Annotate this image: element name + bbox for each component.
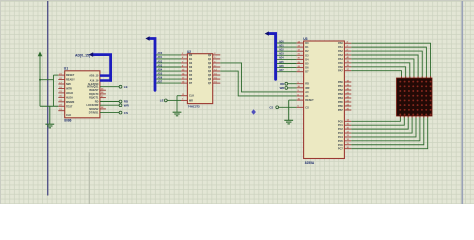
svg-text:AD2: AD2 (158, 60, 163, 63)
svg-text:AD7: AD7 (158, 80, 163, 83)
svg-text:PA1: PA1 (338, 46, 343, 49)
svg-text:PA7: PA7 (338, 70, 343, 73)
svg-text:A16..19: A16..19 (90, 80, 99, 83)
svg-text:CS: CS (124, 111, 128, 115)
svg-text:AD5: AD5 (279, 61, 284, 64)
svg-text:AD0: AD0 (158, 52, 163, 55)
svg-text:AD1: AD1 (158, 56, 163, 59)
svg-text:AD2: AD2 (279, 49, 284, 52)
svg-text:RD: RD (305, 83, 309, 86)
svg-text:LOCK/WR: LOCK/WR (86, 104, 98, 107)
svg-text:PC2: PC2 (338, 128, 343, 131)
svg-text:U1: U1 (64, 67, 68, 71)
svg-text:RQ/GT1: RQ/GT1 (89, 97, 99, 100)
svg-text:PA4: PA4 (338, 58, 343, 61)
svg-text:INTR: INTR (66, 87, 72, 90)
svg-text:WR: WR (280, 86, 285, 90)
svg-text:AD0..15: AD0..15 (89, 75, 99, 78)
svg-text:PC3: PC3 (338, 132, 343, 135)
svg-text:TEST: TEST (66, 105, 73, 108)
svg-text:AD5: AD5 (158, 72, 163, 75)
svg-text:8255A: 8255A (305, 161, 315, 165)
svg-text:DT/R/S1: DT/R/S1 (89, 112, 99, 115)
svg-text:MN/MX: MN/MX (66, 101, 75, 104)
svg-text:PA2: PA2 (338, 50, 343, 53)
svg-text:PB7: PB7 (338, 109, 343, 112)
svg-text:PA5: PA5 (338, 62, 343, 65)
svg-text:BHE/S7: BHE/S7 (89, 89, 99, 92)
svg-text:CLK: CLK (66, 114, 71, 117)
svg-text:AD3: AD3 (158, 64, 163, 67)
svg-text:AD3: AD3 (279, 53, 284, 56)
svg-text:CS: CS (269, 106, 273, 110)
svg-text:LE: LE (160, 99, 164, 103)
svg-text:HLDA: HLDA (66, 96, 73, 99)
svg-text:CLK: CLK (189, 95, 194, 98)
svg-text:PC6: PC6 (338, 144, 343, 147)
svg-text:PC7: PC7 (338, 148, 343, 151)
svg-text:NMI: NMI (66, 83, 71, 86)
svg-text:CS: CS (305, 106, 309, 109)
svg-text:WR: WR (305, 87, 309, 90)
svg-text:AD0: AD0 (279, 40, 284, 43)
svg-text:RESET: RESET (66, 74, 75, 77)
svg-text:RQ/GT0: RQ/GT0 (89, 93, 99, 96)
svg-text:PB0: PB0 (338, 81, 343, 84)
svg-text:READY: READY (66, 79, 75, 82)
svg-text:AD6: AD6 (158, 76, 163, 79)
svg-text:PB6: PB6 (338, 105, 343, 108)
svg-text:LE: LE (124, 85, 128, 89)
svg-text:74HC273: 74HC273 (188, 105, 200, 109)
svg-text:AD7: AD7 (279, 69, 284, 72)
svg-text:PB3: PB3 (338, 93, 343, 96)
svg-text:PC1: PC1 (338, 124, 343, 127)
svg-text:RD: RD (95, 101, 99, 104)
svg-text:PC0: PC0 (338, 120, 343, 123)
svg-text:PB5: PB5 (338, 101, 343, 104)
svg-text:AD4: AD4 (279, 57, 284, 60)
svg-text:WR: WR (124, 103, 130, 107)
svg-text:AD[0..15]: AD[0..15] (75, 53, 90, 57)
svg-text:AD4: AD4 (158, 68, 163, 71)
svg-text:PC5: PC5 (338, 140, 343, 143)
svg-text:U3: U3 (303, 37, 307, 41)
svg-text:PB1: PB1 (338, 85, 343, 88)
svg-text:PA6: PA6 (338, 66, 343, 69)
svg-text:RESET: RESET (305, 99, 314, 102)
svg-text:PA0: PA0 (338, 42, 343, 45)
svg-text:8086: 8086 (64, 119, 71, 123)
svg-text:PA3: PA3 (338, 54, 343, 57)
svg-text:PB2: PB2 (338, 89, 343, 92)
svg-text:AD6: AD6 (279, 65, 284, 68)
svg-text:M/IO/S2: M/IO/S2 (89, 108, 99, 111)
svg-text:AD1: AD1 (279, 44, 284, 47)
svg-text:MR: MR (189, 99, 193, 102)
svg-text:HOLD: HOLD (66, 92, 73, 95)
svg-text:PB4: PB4 (338, 97, 343, 100)
svg-text:PC4: PC4 (338, 136, 343, 139)
